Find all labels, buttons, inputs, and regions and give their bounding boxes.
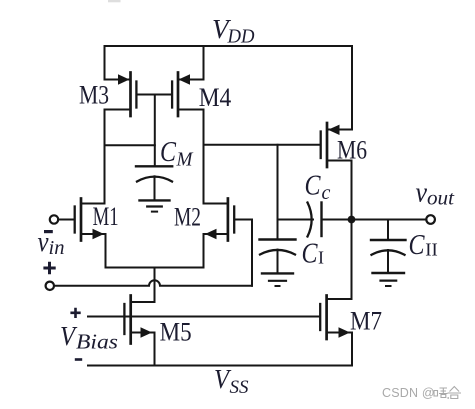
label CII <box>409 230 438 261</box>
label vin <box>38 226 65 259</box>
transistor M2 <box>204 199 253 241</box>
svg-text:C: C <box>160 137 176 168</box>
ground of CI <box>262 273 293 286</box>
svg-text:in: in <box>49 237 65 259</box>
label VBias minus sign <box>75 358 82 361</box>
label Cc <box>305 171 331 205</box>
watermark glyph 2 <box>447 387 461 399</box>
svg-text:DD: DD <box>227 26 255 48</box>
label vout <box>416 177 455 210</box>
svg-text:v: v <box>416 177 428 209</box>
ground of CII <box>373 273 405 286</box>
stray faint mark top <box>108 0 121 2</box>
wire M1 source down <box>105 234 107 268</box>
terminal vin minus <box>50 215 58 223</box>
transistor M7 <box>320 296 352 340</box>
terminal vin plus <box>46 282 54 290</box>
label VBias plus sign <box>70 308 80 318</box>
svg-text:M3: M3 <box>79 81 109 110</box>
wire VDD to M6 source <box>351 46 353 130</box>
svg-text:M2: M2 <box>174 203 201 232</box>
wire VDD to M3 source <box>104 46 106 80</box>
wire M2 source down <box>203 234 205 268</box>
svg-text:M4: M4 <box>199 83 232 112</box>
transistor M4 <box>172 73 203 117</box>
watermark glyph 1 <box>434 388 448 398</box>
svg-text:C: C <box>302 239 318 270</box>
capacitor CM <box>136 166 172 200</box>
svg-text:M6: M6 <box>337 136 367 165</box>
ground of CM <box>140 200 170 211</box>
transistor M6 <box>321 123 352 167</box>
wire gate link to CM <box>154 95 156 167</box>
label VDD <box>212 14 255 48</box>
wire M4 drain to M6 gate <box>204 144 321 146</box>
label vin plus sign <box>43 262 55 274</box>
terminal vout <box>426 215 435 224</box>
label CI <box>302 239 325 270</box>
svg-text:c: c <box>322 182 331 204</box>
wire M6 drain to M7 drain (output column) <box>351 161 353 300</box>
svg-text:M1: M1 <box>93 202 119 231</box>
label VBias <box>60 321 118 354</box>
svg-text:M: M <box>176 150 195 171</box>
wire M2 gate down <box>251 220 253 286</box>
wire VSS rail <box>88 365 352 367</box>
transistor M3 <box>105 73 137 117</box>
transistor M1 <box>58 199 105 241</box>
wire tail to M5 drain <box>154 268 156 303</box>
wire VBias gate rail <box>88 316 320 318</box>
wire VDD to M4 source <box>203 46 205 80</box>
capacitor Cc <box>278 203 352 237</box>
wire M6 gate node down to CI <box>277 145 279 240</box>
wire M3 drain to M1 drain <box>104 110 106 204</box>
svg-text:II: II <box>425 240 438 260</box>
svg-text:C: C <box>305 171 321 202</box>
wire M4 drain to M2 drain <box>203 110 205 204</box>
svg-text:SS: SS <box>230 377 250 398</box>
wire M3 gate-drain tap <box>105 144 155 146</box>
svg-text:M5: M5 <box>160 318 192 347</box>
node output junction <box>348 216 356 224</box>
wire M7 source down <box>351 333 353 366</box>
label vin minus sign <box>44 230 53 233</box>
transistor M5 <box>124 296 154 344</box>
label CM <box>160 137 194 171</box>
capacitor CII <box>371 220 406 273</box>
svg-text:I: I <box>318 248 324 268</box>
svg-text:M7: M7 <box>350 307 382 336</box>
wire M3-M4 gate link <box>138 94 172 96</box>
capacitor CI <box>260 240 296 274</box>
svg-text:Bias: Bias <box>76 330 118 354</box>
svg-text:out: out <box>427 188 454 210</box>
wire M5 source down <box>154 333 156 366</box>
wire vin plus with hop <box>54 280 252 286</box>
svg-text:CSDN @: CSDN @ <box>382 386 435 400</box>
wire tail join <box>106 267 204 269</box>
label VSS <box>214 364 249 398</box>
wire VDD rail <box>105 45 353 47</box>
wire output <box>352 219 427 221</box>
svg-text:C: C <box>409 230 425 261</box>
svg-text:v: v <box>38 226 49 258</box>
